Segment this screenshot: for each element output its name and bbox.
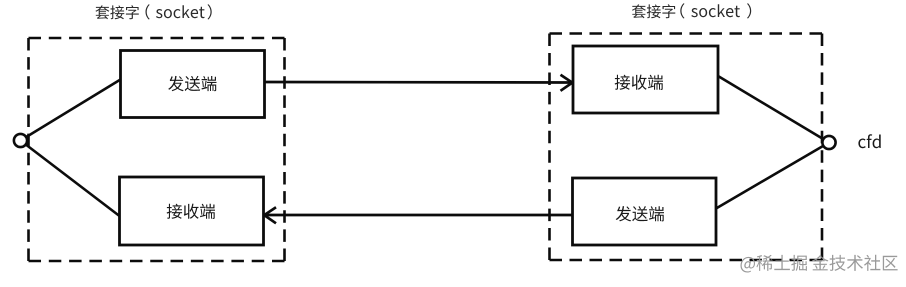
right socket dashed boundary box (550, 32, 823, 35)
text: left sender label 发送端 (168, 76, 216, 91)
arrowhead: bottom arrow pointing left (264, 207, 276, 223)
node: right endpoint circle (cfd) (822, 136, 835, 149)
wire: right receiver box to right node (718, 76, 829, 143)
arrowhead: top arrow pointing right (561, 75, 573, 91)
wire: top arrow shaft left sender to right receiver (265, 81, 572, 84)
left socket dashed boundary box (29, 37, 285, 40)
wire: left node to left receiver box (21, 141, 120, 217)
watermark: @稀土掘金技术社区 (741, 255, 898, 273)
text: right receiver label 接收端 (615, 75, 663, 90)
label: cfd (858, 134, 880, 148)
wire: left node to left sender box (21, 80, 121, 141)
label: left socket title 套接字（socket） (95, 4, 211, 19)
text: left receiver label 接收端 (167, 204, 215, 219)
wire: right sender box to right node (716, 143, 829, 209)
text: right sender label 发送端 (616, 206, 664, 221)
box: left sender 发送端 (121, 51, 265, 118)
box: left receiver 接收端 (120, 177, 264, 245)
box: right sender 发送端 (573, 178, 717, 245)
box: right receiver 接收端 (573, 46, 718, 113)
label: right socket title 套接字（socket） (632, 3, 751, 18)
node: left endpoint circle (14, 134, 27, 147)
wire: bottom arrow shaft right sender to left receiver (265, 214, 572, 217)
